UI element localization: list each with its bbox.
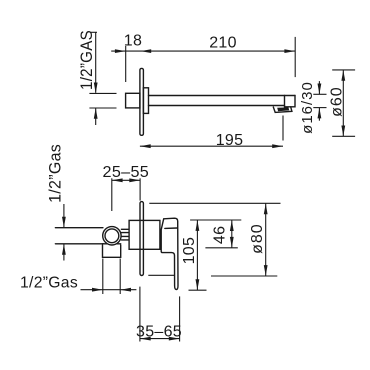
aerator slot (filled) <box>277 107 289 111</box>
knob outer circle <box>103 227 121 245</box>
ext line inlet top <box>89 92 116 94</box>
inlet pipe bottom line <box>55 243 103 245</box>
arrow 105 up <box>196 220 200 231</box>
valve body <box>129 220 160 249</box>
svg-text:46: 46 <box>212 226 229 244</box>
arrow 195 right <box>272 144 283 148</box>
svg-text:25–55: 25–55 <box>103 164 150 181</box>
dim line 46 <box>231 220 233 247</box>
dim 16/30 lower segment <box>318 108 320 121</box>
arrow gas-top up <box>94 108 98 119</box>
tick o60 bottom <box>332 135 355 137</box>
tick 46 bottom <box>205 247 237 249</box>
inlet square 1/2 GAS <box>126 93 140 108</box>
arrow 35-65 left <box>140 337 151 341</box>
tick o80 bottom right segment <box>211 275 277 277</box>
dim line 105 <box>196 220 198 290</box>
arrow o80 up <box>264 204 268 215</box>
svg-text:1/2”Gas: 1/2”Gas <box>20 274 78 291</box>
wall plate (escutcheon, side view) <box>140 68 144 135</box>
tick 16/30 bottom <box>313 107 326 109</box>
svg-text:35–65: 35–65 <box>136 323 182 340</box>
arrow 16/30 up <box>318 108 322 119</box>
arrow 46 down <box>230 237 234 248</box>
ext line gas bottom left <box>102 259 104 295</box>
ext line 18 left <box>125 46 127 82</box>
svg-text:ø60: ø60 <box>329 86 346 117</box>
tick o80 bottom left segment <box>148 274 174 276</box>
svg-text:1/2”Gas: 1/2”Gas <box>46 144 65 203</box>
tick 105/46 top <box>190 219 241 221</box>
arrow 105 down <box>196 279 200 290</box>
arrow o60 up <box>341 70 345 81</box>
svg-text:210: 210 <box>209 34 237 51</box>
dim line 35-65 <box>140 338 180 340</box>
arrow 210 right (pointing right) <box>284 49 295 53</box>
svg-text:18: 18 <box>124 33 142 50</box>
spout tube bottom line <box>149 105 285 107</box>
ext line 35-65 right <box>179 296 181 341</box>
ext line 210 right <box>294 37 296 77</box>
svg-text:105: 105 <box>181 237 198 265</box>
spout end cap <box>285 96 296 107</box>
arrow 25-55 right <box>129 178 140 182</box>
ext line 35-65 left <box>139 287 141 342</box>
svg-text:ø16/30: ø16/30 <box>299 81 316 134</box>
ext line inlet bottom <box>89 107 116 109</box>
stem spline lines <box>121 229 128 240</box>
mount hub behind plate <box>143 88 148 114</box>
arrow o80 down <box>264 265 268 276</box>
arrow 195 left <box>140 144 151 148</box>
inlet block below knob <box>103 245 121 257</box>
dim line 195 <box>140 145 283 147</box>
dim line o80 <box>265 204 267 276</box>
arrow 25-55 left <box>112 178 123 182</box>
ext line 25-55 right <box>139 178 141 200</box>
tick o60 top <box>332 69 355 71</box>
arrow 18 left (pointing right) <box>115 49 126 53</box>
dim line gas left upper <box>63 204 65 227</box>
aerator outline <box>273 107 292 113</box>
arrow gas-top down <box>94 83 98 94</box>
handle hub and lever <box>161 218 178 289</box>
dim 1/2GAS top: vertical line upper <box>95 32 97 93</box>
ext line 25-55 left <box>111 178 113 211</box>
mixer wall plate (side view) <box>140 202 143 276</box>
arrow 46 up <box>230 220 234 231</box>
knob inner circle <box>105 229 119 243</box>
dim 1/2GAS top: vertical tail lower <box>95 108 97 125</box>
arrow 35-65 right <box>169 337 180 341</box>
arrow o60 down <box>341 126 345 137</box>
dim line 18/210 <box>111 50 295 52</box>
dim 16/30 upper segment <box>318 81 320 94</box>
svg-text:195: 195 <box>216 132 244 149</box>
tick 105 bottom <box>189 289 207 291</box>
ext line gas bottom right <box>119 259 121 295</box>
tick 16/30 top <box>313 93 326 95</box>
ref line plate top (o80) <box>149 202 280 204</box>
ext line 195 right <box>282 116 284 141</box>
arrow gas-left down <box>62 217 66 228</box>
dim line 25-55 <box>112 179 140 181</box>
dim line gas bottom <box>81 289 137 291</box>
dim 1/2GAS top: tick <box>91 31 97 33</box>
arrow 18/210 shared (pointing left) <box>140 49 151 53</box>
arrow 16/30 down <box>318 84 322 95</box>
handle hub inner chamfer line <box>165 227 177 229</box>
arrow gas-bottom right <box>92 288 103 292</box>
svg-text:ø80: ø80 <box>249 223 266 254</box>
arrow gas-bottom left <box>120 288 131 292</box>
dim line o60 <box>342 70 344 136</box>
arrow gas-left up <box>62 244 66 255</box>
dim line gas left lower <box>63 244 65 260</box>
inlet block top edges beside knob <box>103 243 121 245</box>
svg-text:1/2”GAS: 1/2”GAS <box>77 30 96 90</box>
spout tube top line <box>149 95 296 97</box>
inlet pipe top line <box>55 227 103 229</box>
